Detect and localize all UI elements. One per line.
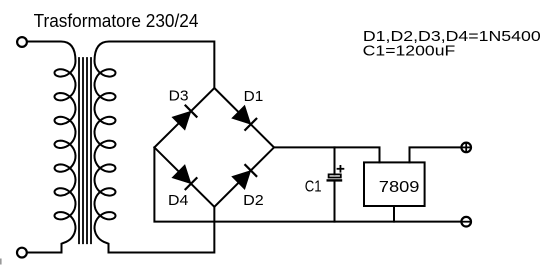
svg-text:C1=1200uF: C1=1200uF <box>363 43 456 59</box>
C1 polarity plus sign <box>338 166 344 172</box>
svg-text:C1: C1 <box>305 178 322 195</box>
wire: regulator output to plus terminal <box>410 147 461 162</box>
wire: minus rail from left vertex <box>154 147 460 221</box>
svg-text:Trasformatore 230/24: Trasformatore 230/24 <box>34 11 199 31</box>
diode D4 <box>172 165 197 190</box>
svg-text:7809: 7809 <box>379 179 420 196</box>
wire: regulator ground pin <box>393 206 395 222</box>
svg-text:D2: D2 <box>243 192 264 209</box>
wire: C1 top lead <box>334 147 336 174</box>
transformer core <box>79 58 91 243</box>
input terminal top-left <box>17 37 27 47</box>
diode D3 <box>172 105 197 130</box>
capacitor C1 plates <box>329 174 341 177</box>
input terminal bottom-left <box>17 248 27 258</box>
diode D2 <box>232 164 257 189</box>
svg-text:D1: D1 <box>244 88 264 105</box>
svg-text:D3: D3 <box>169 88 189 105</box>
wire: C1 bottom lead <box>334 181 336 222</box>
diode D1 <box>232 106 257 131</box>
regulator U1 box <box>364 162 425 206</box>
output terminal minus <box>461 217 471 227</box>
wire: plus rail to regulator input <box>274 147 380 162</box>
bridge rectifier diamond wires <box>154 88 274 207</box>
svg-text:D4: D4 <box>168 192 188 209</box>
transformer T1 primary winding <box>28 42 76 253</box>
output terminal plus <box>461 143 471 153</box>
edge artifact <box>0 259 2 265</box>
transformer T1 secondary winding <box>95 42 215 253</box>
